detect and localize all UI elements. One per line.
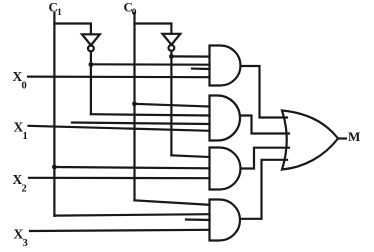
svg-text:1: 1 [23, 131, 28, 142]
node junction dot on C1' [89, 62, 94, 67]
wire C0' stem [170, 51, 172, 156]
svg-text:3: 3 [23, 238, 28, 249]
wire C1 to AND gate A3 pin 3 [54, 167, 209, 168]
wire C1' to AND gate A2 pin 2 [91, 114, 210, 115]
wire X3 to AND gate A4 pin 4 [30, 230, 210, 231]
node X2 label [13, 172, 27, 194]
wire to AND gate A2 pin 3 [72, 123, 210, 125]
svg-text:0: 0 [22, 80, 27, 91]
wire C1 vertical line [53, 13, 55, 216]
wire C0' to AND gate A3 pin 2 [171, 155, 209, 157]
wire X2 to AND gate A3 pin 4 [29, 177, 210, 180]
node X3 label [14, 227, 28, 249]
wire OR output [338, 137, 346, 139]
wire C1 to AND gate A4 pin 2 [54, 214, 209, 215]
inverter U1 bubble [88, 46, 94, 52]
wire C1' to AND gate A1 pin 2 [91, 63, 210, 66]
wire C0 branch to inverter U2 [135, 24, 172, 34]
svg-text:M: M [348, 129, 360, 144]
wire AND A4 output to OR [241, 160, 287, 219]
inverter U1 (NOT gate on C1) [82, 34, 100, 45]
wire C1 branch to inverter U1 [54, 24, 91, 35]
wire stub A4 pin 3 [186, 218, 210, 221]
node C1 label [49, 0, 63, 18]
node X0 label [13, 69, 27, 91]
inverter U2 bubble [169, 45, 175, 51]
node junction dot on C1 [52, 165, 57, 170]
wire C0' to AND gate A1 pin 1 [171, 55, 209, 57]
node M output label [348, 129, 360, 144]
wire AND A1 output to OR [241, 66, 287, 118]
wire X1 to AND gate A2 pin 4 [29, 126, 210, 131]
wire AND A3 output to OR [242, 148, 290, 169]
wire X0 to AND gate A1 pin 4 [28, 75, 210, 78]
AND gate A4 [210, 200, 240, 241]
wire C1' stem [90, 51, 92, 114]
OR gate U3 [282, 111, 338, 170]
AND gate A1 [210, 46, 241, 86]
wire stub A1 pin 3 [192, 67, 210, 70]
wire AND A2 output to OR [241, 116, 290, 134]
AND gate A2 [210, 96, 241, 141]
wire C0 vertical line [133, 13, 135, 200]
node C0 label [124, 0, 137, 18]
wire C0 to AND gate A4 pin 1 [135, 200, 210, 205]
svg-text:2: 2 [22, 183, 27, 194]
AND gate A3 [210, 148, 241, 190]
inverter U2 (NOT gate on C0) [163, 34, 181, 45]
svg-text:1: 1 [57, 8, 62, 18]
node junction dot on C0' [169, 54, 174, 59]
node X1 label [14, 120, 28, 142]
wire C0 to AND gate A2 pin 1 [135, 104, 210, 107]
node junction dot on C0 [132, 101, 137, 106]
